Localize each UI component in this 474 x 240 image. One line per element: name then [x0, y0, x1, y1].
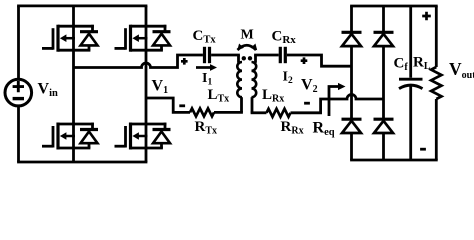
inductor LRx (secondary winding) — [252, 62, 257, 97]
transistor Q4 (bottom-right MOSFET with body diode) — [115, 123, 171, 150]
wire: RRx return, step up, hop over left leg, to right leg — [291, 95, 384, 113]
svg-text:Cf: Cf — [394, 56, 409, 74]
resistor RTx — [190, 108, 214, 116]
wire: CRx to rectifier left leg, step down — [287, 55, 352, 66]
svg-text:I1: I1 — [202, 71, 212, 88]
diode D3 — [342, 119, 362, 133]
svg-text:RRx: RRx — [281, 119, 304, 137]
wire: rectifier bottom rail — [350, 159, 438, 162]
node: output plus sign — [422, 12, 431, 21]
node: LRx polarity dot — [248, 56, 252, 60]
svg-text:LRx: LRx — [262, 87, 284, 105]
wire: bottom DC rail — [17, 161, 147, 164]
svg-text:I2: I2 — [283, 70, 293, 87]
svg-text:LTx: LTx — [208, 87, 230, 105]
node: V2 minus sign — [304, 102, 310, 105]
capacitor Cf (filter) — [399, 6, 423, 160]
wire: CTx to LTx top — [211, 54, 240, 57]
wire: bridge leg 2 — [145, 6, 148, 162]
svg-text:V2: V2 — [301, 77, 318, 96]
diode D2 — [374, 32, 394, 46]
svg-text:RTx: RTx — [195, 119, 218, 137]
wire: RL branch top — [435, 6, 438, 67]
transistor Q1 (top-left MOSFET with body diode) — [42, 25, 98, 52]
wire: left rail upper — [17, 6, 20, 79]
node: output minus sign — [420, 148, 426, 151]
wire: RL branch bottom — [435, 99, 438, 160]
wire: rectifier left leg — [350, 6, 353, 160]
diode D1 — [342, 32, 362, 46]
svg-text:M: M — [241, 28, 254, 43]
svg-text:Req: Req — [313, 120, 335, 139]
node: V1 plus sign — [181, 58, 188, 65]
resistor RL — [431, 67, 441, 99]
svg-text:Vin: Vin — [38, 81, 58, 100]
wire: LRx top to CRx — [254, 55, 257, 63]
inductor LTx (primary winding) — [237, 62, 242, 97]
equivalent resistance arrow Req — [329, 87, 338, 117]
transistor Q3 (bottom-left MOSFET with body diode) — [42, 123, 98, 150]
wire: rectifier top rail — [350, 5, 438, 8]
svg-text:CRx: CRx — [272, 29, 297, 47]
current arrow I1 — [196, 66, 211, 69]
svg-text:V1: V1 — [152, 78, 169, 97]
resistor RRx — [267, 109, 291, 117]
wire: bridge leg 1 — [72, 6, 75, 162]
transistor Q2 (top-right MOSFET with body diode) — [115, 25, 171, 52]
node: V2 plus sign — [301, 57, 308, 64]
wire: RTx to LTx bottom — [214, 111, 243, 114]
capacitor CRx — [280, 47, 285, 63]
svg-text:CTx: CTx — [193, 28, 217, 46]
wire: inverter + output with crossover hop — [74, 55, 203, 68]
capacitor CTx — [205, 47, 210, 63]
svg-text:RL: RL — [413, 55, 431, 73]
diode D4 — [374, 119, 394, 133]
wire: inverter - output, step down — [146, 98, 190, 112]
mutual coupling arrow M — [238, 45, 257, 50]
wire: left rail lower — [17, 106, 20, 162]
svg-text:Vout: Vout — [449, 59, 474, 81]
voltage source Vin — [5, 79, 32, 106]
wire: rectifier right leg — [382, 6, 385, 160]
wire: top DC rail — [17, 5, 147, 8]
node: V1 minus sign — [179, 104, 185, 107]
wire: LRx bottom to RRx — [251, 97, 254, 113]
node: LTx polarity dot — [242, 56, 246, 60]
